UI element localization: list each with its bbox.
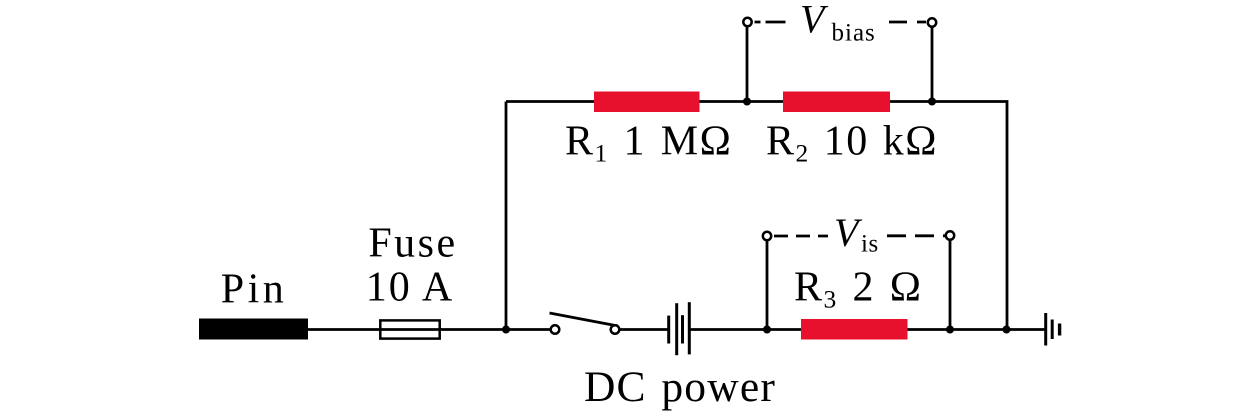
node: junction of right riser and bottom wire <box>1003 326 1011 334</box>
V_bias left terminal <box>743 18 751 26</box>
node: junction right of R2 <box>928 98 936 106</box>
ground bar 1 (tall) <box>1044 313 1047 346</box>
svg-text:V: V <box>800 0 829 42</box>
svg-text:10 A: 10 A <box>366 265 455 311</box>
V_is dashed lead left <box>774 235 828 238</box>
V_bias dashed lead right <box>889 21 926 24</box>
wire: stub from R3 left node up to left V_is terminal <box>766 236 769 330</box>
ground bar 2 (medium) <box>1051 320 1054 340</box>
ground bar 3 (short) <box>1058 324 1061 336</box>
node: junction between R1 and R2 <box>743 98 751 106</box>
svg-text:DC power: DC power <box>584 363 776 411</box>
wire: top rail through R1 and R2, then down right side to bottom wire <box>506 102 1007 331</box>
switch SW1 blade <box>550 313 619 326</box>
wire: stub from R1-R2 node up to left V_bias terminal <box>746 22 749 102</box>
battery B1 plate 2 long <box>675 303 678 355</box>
battery B1 plate 4 long <box>688 302 691 354</box>
wire: left vertical riser from bottom node up to top rail <box>505 102 508 331</box>
svg-text:R2 10 kΩ: R2 10 kΩ <box>766 119 938 168</box>
svg-text:is: is <box>861 231 879 258</box>
svg-text:V: V <box>834 210 863 255</box>
V_bias right terminal <box>928 18 936 26</box>
resistor R1 1 MOhm (red body) <box>594 92 700 113</box>
svg-text:R3 2 Ω: R3 2 Ω <box>794 265 922 314</box>
pin (black terminal lug) <box>199 319 308 340</box>
V_is left terminal <box>763 232 771 240</box>
V_is dashed lead right <box>887 234 945 237</box>
switch SW1 right contact <box>611 325 620 334</box>
svg-text:R1 1 MΩ: R1 1 MΩ <box>565 119 732 168</box>
battery B1 (DC power) plate 1 short <box>667 316 670 344</box>
resistor R2 10 kOhm (red body) <box>783 92 890 113</box>
svg-text:Fuse: Fuse <box>368 221 457 267</box>
wire: switch right contact to battery left plate <box>615 328 668 331</box>
wire: battery right plate to ground, through R3 <box>689 328 1045 331</box>
wire: stub from R2 right node up to right V_bias terminal <box>931 23 934 102</box>
wire: main bottom wire from pin to switch left contact <box>308 328 551 331</box>
switch SW1 left contact <box>551 325 560 334</box>
fuse F1 10 A (rectangle with wire through) <box>380 320 439 338</box>
battery B1 plate 3 short <box>681 315 684 343</box>
node: junction of fuse wire and left riser <box>502 326 510 334</box>
wire: stub from R3 right node up to right V_is terminal <box>949 236 952 330</box>
svg-text:Pin: Pin <box>221 267 288 313</box>
node: junction left of R3 <box>763 326 771 334</box>
resistor R3 2 Ohm (red body) <box>801 319 908 340</box>
node: junction right of R3 <box>946 326 954 334</box>
V_is right terminal <box>946 231 954 239</box>
svg-text:bias: bias <box>832 20 876 47</box>
V_bias dashed lead left <box>755 21 792 24</box>
